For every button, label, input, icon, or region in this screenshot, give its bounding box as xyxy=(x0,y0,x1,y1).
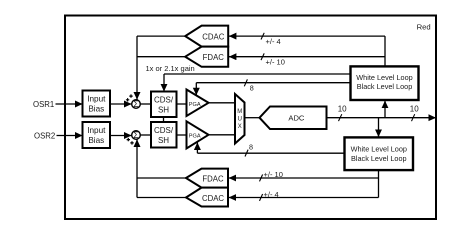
svg-text:SH: SH xyxy=(158,136,169,145)
svg-text:8: 8 xyxy=(249,142,253,151)
svg-text:OSR2: OSR2 xyxy=(34,132,55,141)
svg-text:M: M xyxy=(237,109,242,115)
svg-text:Black Level Loop: Black Level Loop xyxy=(351,154,407,163)
svg-text:X: X xyxy=(238,124,242,130)
svg-text:Input: Input xyxy=(87,126,106,135)
svg-text:Σ: Σ xyxy=(133,130,139,140)
svg-text:CDAC: CDAC xyxy=(202,194,224,203)
svg-text:CDS/: CDS/ xyxy=(154,126,174,135)
svg-text:FDAC: FDAC xyxy=(202,175,224,184)
svg-text:8: 8 xyxy=(250,83,254,92)
svg-text:+/- 4: +/- 4 xyxy=(264,190,279,199)
svg-text:+/- 10: +/- 10 xyxy=(266,57,285,66)
svg-text:Bias: Bias xyxy=(88,136,104,145)
svg-text:Bias: Bias xyxy=(88,104,104,113)
svg-text:CDS/: CDS/ xyxy=(154,96,174,105)
svg-text:+/- 4: +/- 4 xyxy=(266,37,281,46)
svg-text:FDAC: FDAC xyxy=(203,53,225,62)
svg-text:ADC: ADC xyxy=(288,113,305,122)
svg-text:10: 10 xyxy=(338,105,347,114)
svg-text:PGA: PGA xyxy=(189,134,201,140)
svg-text:White Level Loop: White Level Loop xyxy=(351,145,407,154)
svg-text:SH: SH xyxy=(158,105,169,114)
svg-text:Red: Red xyxy=(417,23,431,32)
svg-text:+/- 10: +/- 10 xyxy=(264,170,283,179)
svg-text:U: U xyxy=(238,116,242,122)
svg-text:PGA: PGA xyxy=(189,102,201,108)
svg-text:Input: Input xyxy=(87,95,106,104)
svg-text:Σ: Σ xyxy=(133,99,139,109)
svg-text:1x or 2.1x gain: 1x or 2.1x gain xyxy=(146,64,195,73)
svg-text:10: 10 xyxy=(410,105,419,114)
svg-text:White Level Loop: White Level Loop xyxy=(356,73,412,82)
svg-text:Black Level Loop: Black Level Loop xyxy=(357,82,413,91)
svg-text:CDAC: CDAC xyxy=(202,33,224,42)
svg-text:OSR1: OSR1 xyxy=(33,100,54,109)
